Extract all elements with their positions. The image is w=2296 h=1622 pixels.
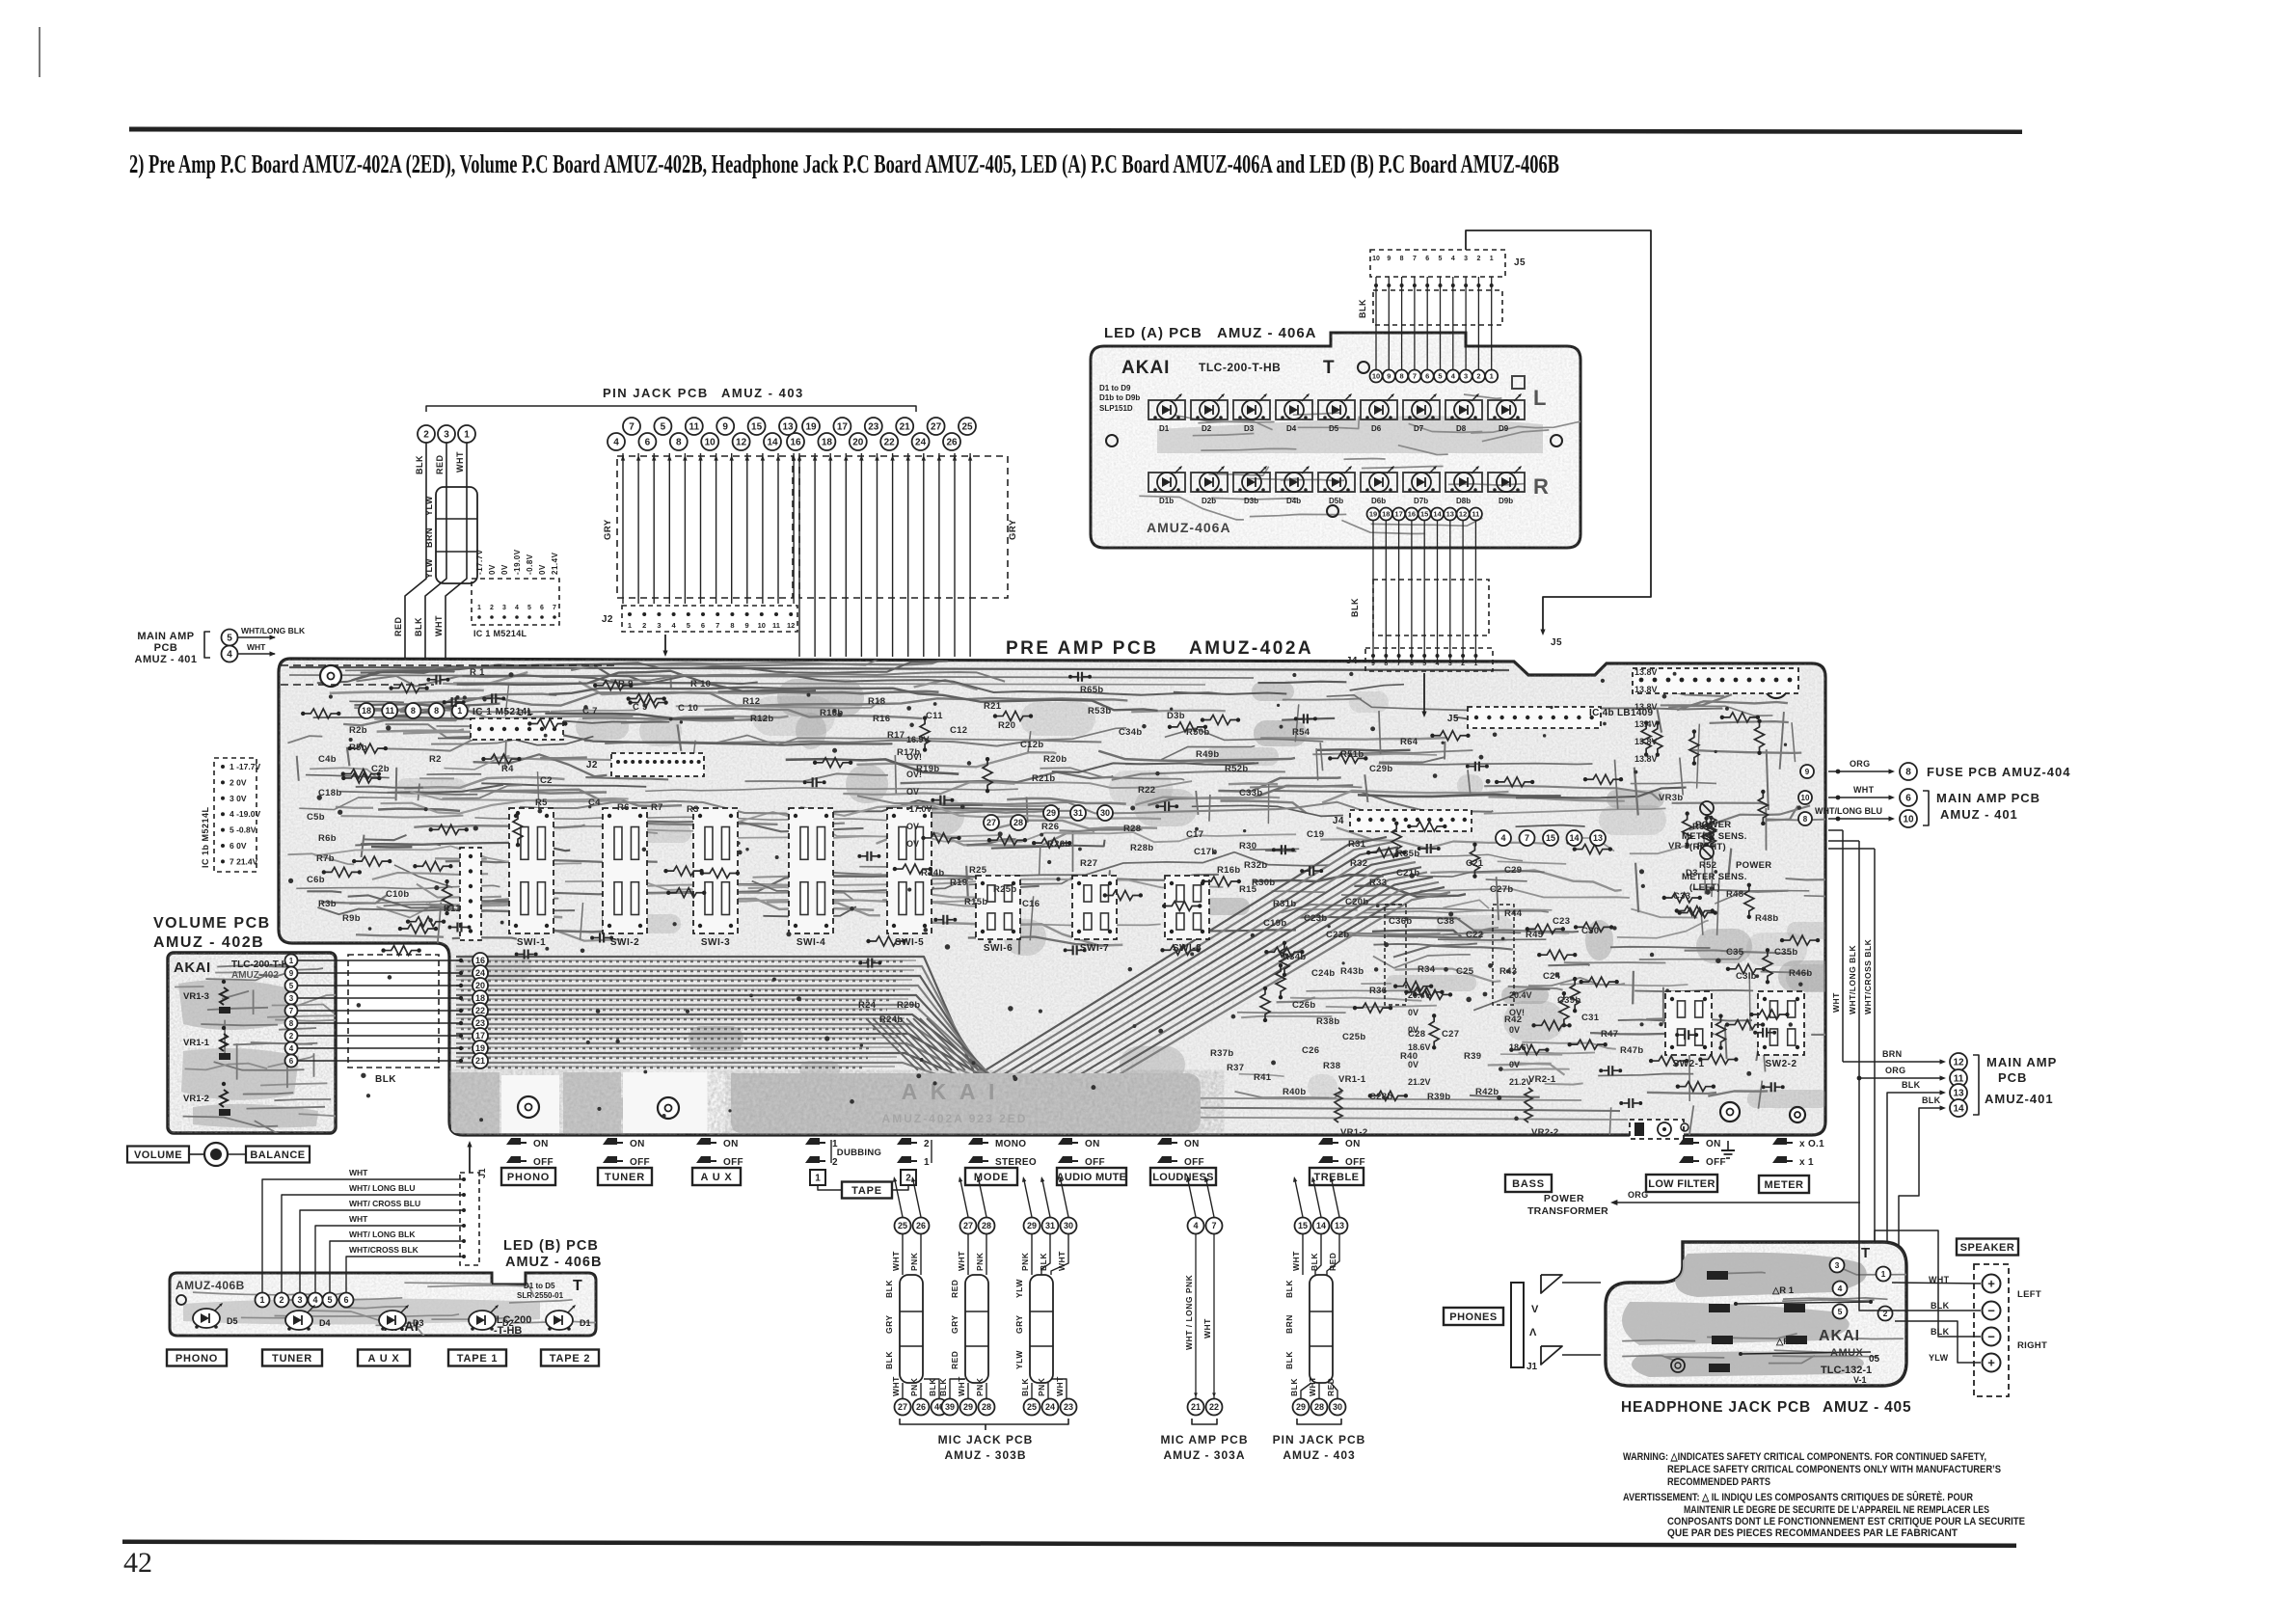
- svg-text:POWER: POWER: [1695, 820, 1731, 830]
- svg-text:17: 17: [837, 422, 849, 433]
- svg-text:C25: C25: [1456, 966, 1474, 977]
- svg-text:SWI-6: SWI-6: [984, 943, 1013, 954]
- svg-text:R65b: R65b: [1080, 685, 1103, 695]
- svg-text:21.4V: 21.4V: [551, 552, 559, 575]
- copper traces right region: [1804, 896, 1850, 897]
- svg-text:4: 4: [613, 438, 619, 448]
- svg-text:23: 23: [868, 422, 879, 433]
- svg-text:FUSE PCB AMUZ-404: FUSE PCB AMUZ-404: [1927, 765, 2070, 779]
- switch row TREBLE: [1318, 1138, 1333, 1145]
- svg-text:VR1-2: VR1-2: [1340, 1127, 1367, 1138]
- svg-text:R5: R5: [535, 797, 548, 808]
- svg-text:MAINTENIR LE DEGRE DE SECURITE: MAINTENIR LE DEGRE DE SECURITE DE L’APPA…: [1684, 1504, 1989, 1516]
- svg-text:R21: R21: [984, 701, 1002, 712]
- svg-text:VR1-1: VR1-1: [183, 1038, 210, 1048]
- svg-text:R25: R25: [969, 865, 987, 876]
- svg-text:C19: C19: [1307, 829, 1324, 840]
- svg-text:AKAI: AKAI: [174, 960, 211, 976]
- connector J2 inside board: [611, 753, 704, 776]
- J4 wires below LED(A): [1372, 521, 1374, 663]
- svg-text:R27: R27: [1080, 858, 1097, 869]
- svg-text:R6: R6: [617, 802, 630, 813]
- svg-text:OFF: OFF: [533, 1157, 554, 1168]
- svg-text:OFF: OFF: [630, 1157, 650, 1168]
- svg-text:R7: R7: [651, 802, 663, 813]
- connector J5 row inside board: [1468, 707, 1601, 728]
- svg-text:9: 9: [1371, 661, 1375, 667]
- svg-text:MAIN AMP: MAIN AMP: [137, 631, 194, 642]
- cable group PIN JACK: [1295, 1218, 1311, 1234]
- svg-text:YLW: YLW: [1014, 1279, 1024, 1298]
- svg-text:PNK: PNK: [975, 1377, 985, 1396]
- svg-text:WHT: WHT: [891, 1251, 901, 1271]
- switch SW2-2: [1758, 991, 1804, 1055]
- label SPEAKER: [1957, 1239, 2018, 1256]
- svg-text:ORG: ORG: [1628, 1190, 1648, 1200]
- svg-text:BLK: BLK: [1931, 1327, 1950, 1337]
- svg-text:7: 7: [553, 605, 556, 611]
- switch SW1-4: [789, 808, 833, 933]
- svg-text:A K A I: A K A I: [902, 1079, 999, 1104]
- svg-text:WHT: WHT: [1291, 1251, 1301, 1271]
- svg-text:R64: R64: [1400, 737, 1418, 747]
- svg-text:AMUZ - 401: AMUZ - 401: [135, 654, 198, 665]
- svg-text:11: 11: [689, 422, 700, 433]
- svg-text:SWI-3: SWI-3: [701, 937, 730, 948]
- svg-text:0V: 0V: [488, 564, 497, 575]
- svg-text:D1b: D1b: [1159, 497, 1174, 505]
- wires 12 11 13 14 MAIN AMP bottom: [1843, 1061, 1942, 1063]
- svg-text:C25b: C25b: [1342, 1032, 1365, 1042]
- svg-text:2: 2: [490, 605, 494, 611]
- svg-text:GRY: GRY: [884, 1314, 894, 1334]
- svg-text:28: 28: [1013, 818, 1023, 827]
- svg-text:RED: RED: [435, 454, 445, 474]
- svg-text:18.6V: 18.6V: [1509, 1042, 1532, 1052]
- svg-text:20: 20: [852, 438, 864, 448]
- svg-text:BLK: BLK: [928, 1378, 937, 1396]
- svg-text:OFF: OFF: [1345, 1157, 1365, 1168]
- left cable sleeve: [436, 487, 477, 583]
- svg-text:25: 25: [1027, 1402, 1037, 1412]
- mounting hole top right: [1765, 675, 1788, 698]
- svg-text:2: 2: [924, 1139, 930, 1149]
- svg-text:11: 11: [1472, 510, 1479, 519]
- connector J2 external: [622, 606, 797, 632]
- bracket MIC JACK PCB: [900, 1419, 1068, 1424]
- center connector circles group: [623, 418, 640, 435]
- svg-text:D4: D4: [1286, 424, 1297, 433]
- svg-text:R6b: R6b: [318, 833, 337, 844]
- J5 wires above LED(A): [1375, 277, 1377, 369]
- svg-text:GRY: GRY: [1008, 519, 1018, 540]
- svg-text:R18: R18: [868, 696, 885, 707]
- svg-text:PCB: PCB: [154, 642, 178, 654]
- svg-text:STEREO: STEREO: [995, 1157, 1037, 1168]
- svg-text:3: 3: [657, 621, 661, 630]
- svg-text:2: 2: [1476, 256, 1480, 262]
- switch SW1-2: [603, 808, 647, 933]
- svg-text:13.8V: 13.8V: [1634, 737, 1658, 746]
- svg-text:6: 6: [343, 1295, 348, 1305]
- wire 4 WHT: [222, 646, 238, 662]
- svg-text:0V: 0V: [1408, 1025, 1418, 1035]
- LED(B) pin circles: [256, 1293, 270, 1308]
- svg-text:15: 15: [751, 422, 763, 433]
- svg-text:WHT: WHT: [349, 1168, 368, 1177]
- svg-text:△R 2: △R 2: [1775, 1337, 1797, 1347]
- svg-text:V-1: V-1: [1853, 1375, 1867, 1385]
- svg-text:13.4V: 13.4V: [1634, 719, 1658, 729]
- svg-text:14: 14: [1316, 1221, 1326, 1230]
- svg-text:16.9V: 16.9V: [906, 735, 930, 744]
- top edge bus traces: [289, 667, 1509, 670]
- svg-text:1: 1: [628, 621, 632, 630]
- svg-text:C11: C11: [926, 711, 943, 721]
- svg-text:IC 1 M5214L: IC 1 M5214L: [473, 629, 527, 638]
- bracket PIN JACK PCB: [1297, 1419, 1341, 1424]
- svg-text:C35: C35: [1726, 947, 1744, 958]
- svg-text:R30: R30: [1239, 841, 1256, 852]
- svg-text:D3b: D3b: [1167, 711, 1185, 721]
- svg-text:+: +: [1987, 1277, 1995, 1291]
- svg-text:13: 13: [782, 422, 794, 433]
- svg-text:C2: C2: [540, 775, 553, 786]
- svg-text:REPLACE SAFETY CRITICAL COMPON: REPLACE SAFETY CRITICAL COMPONENTS ONLY …: [1667, 1464, 2001, 1475]
- circled 10 9 8 pads inside right edge: [1800, 765, 1814, 778]
- svg-text:2 0V: 2 0V: [230, 777, 247, 787]
- svg-text:(LEFT): (LEFT): [1689, 882, 1720, 893]
- svg-text:10: 10: [705, 438, 716, 448]
- svg-text:SWI-1: SWI-1: [517, 937, 546, 948]
- svg-text:D9b: D9b: [1499, 497, 1513, 505]
- svg-text:13: 13: [1593, 833, 1603, 843]
- switch row LOUDNESS: [1157, 1138, 1172, 1145]
- switch SW1-5: [887, 808, 932, 933]
- svg-text:R4: R4: [501, 764, 514, 774]
- svg-text:RECOMMENDED PARTS: RECOMMENDED PARTS: [1667, 1476, 1770, 1488]
- svg-text:HEADPHONE JACK PCB: HEADPHONE JACK PCB: [1621, 1399, 1811, 1416]
- svg-text:05: 05: [1869, 1354, 1880, 1365]
- svg-text:x O.1: x O.1: [1799, 1139, 1824, 1149]
- svg-text:PIN JACK PCB: PIN JACK PCB: [603, 386, 709, 400]
- svg-text:LEFT: LEFT: [2017, 1289, 2041, 1300]
- svg-text:D7: D7: [1414, 424, 1424, 433]
- svg-text:PHONES: PHONES: [1449, 1311, 1497, 1323]
- svg-text:OV: OV: [906, 839, 919, 849]
- svg-text:WHT / LONG PNK: WHT / LONG PNK: [1184, 1274, 1194, 1350]
- svg-text:3: 3: [1448, 661, 1452, 667]
- svg-text:5: 5: [227, 634, 232, 644]
- svg-text:SPEAKER: SPEAKER: [1960, 1242, 2015, 1254]
- svg-text:2: 2: [279, 1295, 284, 1305]
- svg-text:3: 3: [1464, 256, 1468, 262]
- copper traces upper region: [386, 724, 533, 738]
- svg-text:TAPE: TAPE: [851, 1185, 882, 1197]
- right dashed box GRY: [799, 456, 1008, 598]
- svg-text:LOW FILTER: LOW FILTER: [1648, 1178, 1715, 1190]
- svg-text:15: 15: [1298, 1221, 1308, 1230]
- svg-text:R53b: R53b: [1088, 706, 1111, 716]
- svg-text:-19.0V: -19.0V: [513, 549, 522, 575]
- switch SW2-1: [1665, 991, 1712, 1055]
- svg-text:TRANSFORMER: TRANSFORMER: [1527, 1205, 1608, 1217]
- svg-text:VR3b: VR3b: [1659, 793, 1683, 803]
- svg-text:1: 1: [464, 430, 470, 441]
- svg-text:BLK: BLK: [414, 617, 423, 636]
- svg-text:T: T: [1861, 1245, 1871, 1261]
- svg-text:21.2V: 21.2V: [1509, 1077, 1532, 1087]
- svg-text:OFF: OFF: [1706, 1157, 1726, 1168]
- svg-text:20: 20: [475, 981, 485, 990]
- svg-text:C 10: C 10: [678, 703, 698, 714]
- svg-text:R3: R3: [687, 804, 699, 815]
- svg-text:C22b: C22b: [1326, 930, 1349, 940]
- LED(A) pin circles bottom: [1367, 508, 1380, 521]
- J4 arrow into board: [1423, 673, 1425, 714]
- svg-text:J5: J5: [1514, 257, 1526, 268]
- VOLUME knob BALANCE row: [127, 1147, 189, 1163]
- svg-text:R16: R16: [873, 714, 890, 724]
- svg-text:BASS: BASS: [1512, 1178, 1545, 1190]
- bracket MIC AMP PCB: [1192, 1419, 1217, 1424]
- svg-text:12: 12: [787, 621, 795, 630]
- svg-text:BRN: BRN: [1284, 1314, 1294, 1334]
- svg-text:R12b: R12b: [750, 714, 773, 724]
- svg-text:R52: R52: [1699, 860, 1716, 871]
- LED(B) diodes: [193, 1309, 220, 1328]
- BLK dashed box above LED(A): [1373, 290, 1502, 325]
- svg-text:BLK: BLK: [1284, 1351, 1294, 1369]
- IC 3 dashed strip: [1493, 905, 1514, 1005]
- headphone mounting circle: [1671, 1359, 1685, 1372]
- svg-text:30: 30: [1064, 1221, 1073, 1230]
- svg-text:C26: C26: [1302, 1045, 1319, 1056]
- svg-text:VR1-2: VR1-2: [183, 1094, 209, 1104]
- svg-text:MONO: MONO: [995, 1139, 1026, 1149]
- mid band long traces: [722, 832, 1296, 842]
- svg-text:-17.7V: -17.7V: [475, 549, 484, 575]
- svg-text:12: 12: [736, 438, 747, 448]
- svg-text:3: 3: [297, 1295, 302, 1305]
- svg-text:1: 1: [1490, 372, 1494, 381]
- svg-text:R3b: R3b: [318, 899, 337, 909]
- svg-text:VOLUME PCB: VOLUME PCB: [153, 915, 271, 932]
- svg-text:OV: OV: [906, 822, 919, 831]
- svg-text:3 0V: 3 0V: [230, 794, 247, 803]
- svg-text:17: 17: [1394, 510, 1402, 519]
- svg-text:C22: C22: [1466, 930, 1483, 940]
- svg-text:R32: R32: [1350, 858, 1367, 869]
- cable group MIC AMP: [1188, 1218, 1204, 1234]
- svg-text:RED: RED: [1328, 1253, 1337, 1271]
- svg-text:D1: D1: [580, 1318, 591, 1328]
- svg-text:SWI-2: SWI-2: [610, 937, 639, 948]
- svg-text:8: 8: [676, 438, 682, 448]
- source label boxes under LED(B): [167, 1350, 227, 1366]
- svg-text:BLK: BLK: [415, 455, 424, 474]
- dashed wire into board: [281, 664, 617, 666]
- svg-text:D5b: D5b: [1329, 497, 1343, 505]
- svg-text:TUNER: TUNER: [605, 1172, 645, 1183]
- svg-text:RED: RED: [950, 1351, 959, 1369]
- VR pot symbols: [1335, 1088, 1342, 1105]
- svg-text:YLW: YLW: [424, 558, 434, 579]
- svg-text:R52b: R52b: [1225, 764, 1248, 774]
- svg-text:MAIN AMP: MAIN AMP: [1986, 1055, 2057, 1069]
- mounting hole bottom right 2: [1790, 1107, 1805, 1122]
- svg-text:OV!: OV!: [906, 770, 922, 779]
- svg-text:R48b: R48b: [1755, 913, 1778, 924]
- svg-text:WHT: WHT: [957, 1251, 966, 1271]
- svg-text:D5: D5: [1329, 424, 1339, 433]
- svg-text:TAPE 2: TAPE 2: [550, 1353, 591, 1365]
- J4 connector dashed box: [1365, 648, 1493, 671]
- svg-text:△R 1: △R 1: [1771, 1285, 1795, 1296]
- svg-text:C20b: C20b: [1345, 897, 1368, 907]
- svg-text:ORG: ORG: [1885, 1066, 1905, 1075]
- svg-text:WHT: WHT: [455, 451, 465, 473]
- svg-text:R29b: R29b: [897, 1000, 920, 1011]
- svg-text:20.4V: 20.4V: [1408, 990, 1431, 1000]
- svg-text:MAIN AMP PCB: MAIN AMP PCB: [1936, 791, 2040, 805]
- svg-text:R28: R28: [1123, 824, 1141, 834]
- svg-text:R39: R39: [1464, 1051, 1481, 1062]
- svg-text:12: 12: [1953, 1058, 1964, 1068]
- J5 routing wire rectangle: [1466, 230, 1651, 632]
- svg-text:WHT: WHT: [1308, 1376, 1317, 1396]
- svg-text:QUE PAR DES PIECES RECOMMANDEE: QUE PAR DES PIECES RECOMMANDEES PAR LE F…: [1667, 1527, 1958, 1539]
- svg-text:WHT/ LONG BLK: WHT/ LONG BLK: [349, 1230, 416, 1239]
- svg-text:R15b: R15b: [964, 897, 987, 907]
- svg-text:R28b: R28b: [1130, 843, 1153, 853]
- svg-text:19: 19: [1369, 510, 1377, 519]
- svg-text:D6b: D6b: [1371, 497, 1386, 505]
- svg-text:R35b: R35b: [1396, 849, 1419, 859]
- svg-text:L: L: [1533, 386, 1547, 410]
- svg-text:-17.0V: -17.0V: [906, 804, 932, 814]
- svg-text:23: 23: [1064, 1402, 1073, 1412]
- svg-text:39: 39: [945, 1402, 955, 1412]
- switch row LOW FILTER: [1679, 1138, 1693, 1145]
- svg-text:SWI-5: SWI-5: [895, 937, 924, 948]
- svg-text:BRN: BRN: [424, 527, 434, 548]
- svg-text:WHT: WHT: [957, 1376, 966, 1396]
- svg-text:WHT/CROSS BLK: WHT/CROSS BLK: [1863, 938, 1873, 1014]
- svg-text:18: 18: [362, 706, 371, 716]
- LED symbols row 1: [1148, 400, 1185, 419]
- svg-text:AMUZ - 406B: AMUZ - 406B: [505, 1255, 602, 1270]
- svg-text:2: 2: [1476, 372, 1480, 381]
- board VOLUME outline: [168, 953, 336, 1133]
- svg-text:D2: D2: [502, 1318, 514, 1328]
- svg-text:19: 19: [475, 1043, 485, 1053]
- svg-text:VR2-1: VR2-1: [1528, 1074, 1556, 1085]
- svg-text:C19b: C19b: [1263, 918, 1286, 929]
- svg-text:ON: ON: [1706, 1139, 1721, 1149]
- svg-text:C29: C29: [1504, 865, 1522, 876]
- svg-text:C21b: C21b: [1396, 868, 1419, 879]
- svg-text:R 1: R 1: [470, 667, 485, 678]
- svg-text:R31: R31: [1348, 839, 1366, 850]
- svg-text:2: 2: [832, 1157, 838, 1168]
- svg-text:C27b: C27b: [1490, 884, 1513, 895]
- svg-text:R54: R54: [1292, 727, 1310, 738]
- svg-text:WHT/ LONG BLU: WHT/ LONG BLU: [349, 1183, 415, 1193]
- svg-text:R41: R41: [1254, 1072, 1272, 1083]
- svg-text:0V: 0V: [500, 564, 509, 575]
- svg-text:ON: ON: [630, 1139, 645, 1149]
- svg-text:R25b: R25b: [993, 884, 1016, 895]
- svg-text:26: 26: [916, 1221, 926, 1230]
- svg-text:T: T: [573, 1278, 582, 1294]
- svg-text:1: 1: [924, 1157, 930, 1168]
- svg-text:R24b: R24b: [879, 1014, 903, 1025]
- svg-text:GRY: GRY: [1014, 1314, 1024, 1334]
- svg-text:27: 27: [963, 1221, 973, 1230]
- headphone pin circles: [1830, 1258, 1845, 1273]
- svg-text:0V: 0V: [1408, 1008, 1418, 1017]
- svg-text:14: 14: [1433, 510, 1442, 519]
- white etched cutout with mounting holes: [501, 1075, 559, 1133]
- svg-text:8: 8: [289, 1019, 294, 1028]
- svg-text:5: 5: [527, 605, 531, 611]
- svg-text:8: 8: [1400, 372, 1404, 381]
- svg-text:BLK: BLK: [884, 1351, 894, 1369]
- svg-text:R46b: R46b: [1789, 968, 1812, 979]
- svg-text:PNK: PNK: [975, 1252, 985, 1271]
- svg-text:ON: ON: [1085, 1139, 1100, 1149]
- svg-text:R47b: R47b: [1620, 1045, 1643, 1056]
- svg-text:VR1-1: VR1-1: [1338, 1074, 1366, 1085]
- IC 1b voltage dashed box left: [214, 758, 257, 872]
- svg-text:6: 6: [289, 1057, 294, 1066]
- switch row TAPE DUBBING: [805, 1138, 820, 1145]
- svg-text:2: 2: [289, 1032, 294, 1041]
- svg-text:IC 1b M5214L: IC 1b M5214L: [201, 806, 210, 868]
- svg-text:5: 5: [687, 621, 690, 630]
- svg-text:6 0V: 6 0V: [230, 841, 247, 851]
- svg-text:YLW: YLW: [1929, 1353, 1949, 1363]
- svg-text:1 -17.7V: 1 -17.7V: [230, 762, 260, 771]
- svg-text:AMUZ - 402B: AMUZ - 402B: [153, 934, 264, 951]
- svg-text:18: 18: [822, 438, 833, 448]
- svg-text:22: 22: [884, 438, 896, 448]
- cable group MIC JACK 1: [895, 1218, 911, 1234]
- svg-text:D8b: D8b: [1456, 497, 1471, 505]
- switch row MODE: [968, 1138, 983, 1145]
- svg-text:BLK: BLK: [375, 1074, 396, 1085]
- svg-text:6: 6: [1425, 372, 1429, 381]
- svg-text:27: 27: [986, 818, 996, 827]
- svg-text:AMUZ-402A: AMUZ-402A: [1189, 638, 1313, 659]
- svg-text:OFF: OFF: [1085, 1157, 1105, 1168]
- wire 10 MAIN AMP: [1828, 818, 1892, 820]
- svg-text:J5: J5: [1447, 714, 1459, 724]
- svg-text:SLP151D: SLP151D: [1099, 404, 1133, 413]
- svg-text:R26: R26: [1041, 822, 1059, 832]
- svg-text:10: 10: [1903, 815, 1914, 825]
- switch row AUX: [696, 1138, 711, 1145]
- svg-text:11: 11: [772, 621, 780, 630]
- svg-text:16: 16: [790, 438, 801, 448]
- J2 arrow into board: [664, 635, 666, 654]
- svg-text:IC 4b LB1409: IC 4b LB1409: [1589, 708, 1654, 718]
- svg-text:8: 8: [1905, 768, 1911, 778]
- svg-text:27: 27: [931, 422, 942, 433]
- svg-text:18: 18: [475, 993, 485, 1003]
- svg-text:31: 31: [1045, 1221, 1055, 1230]
